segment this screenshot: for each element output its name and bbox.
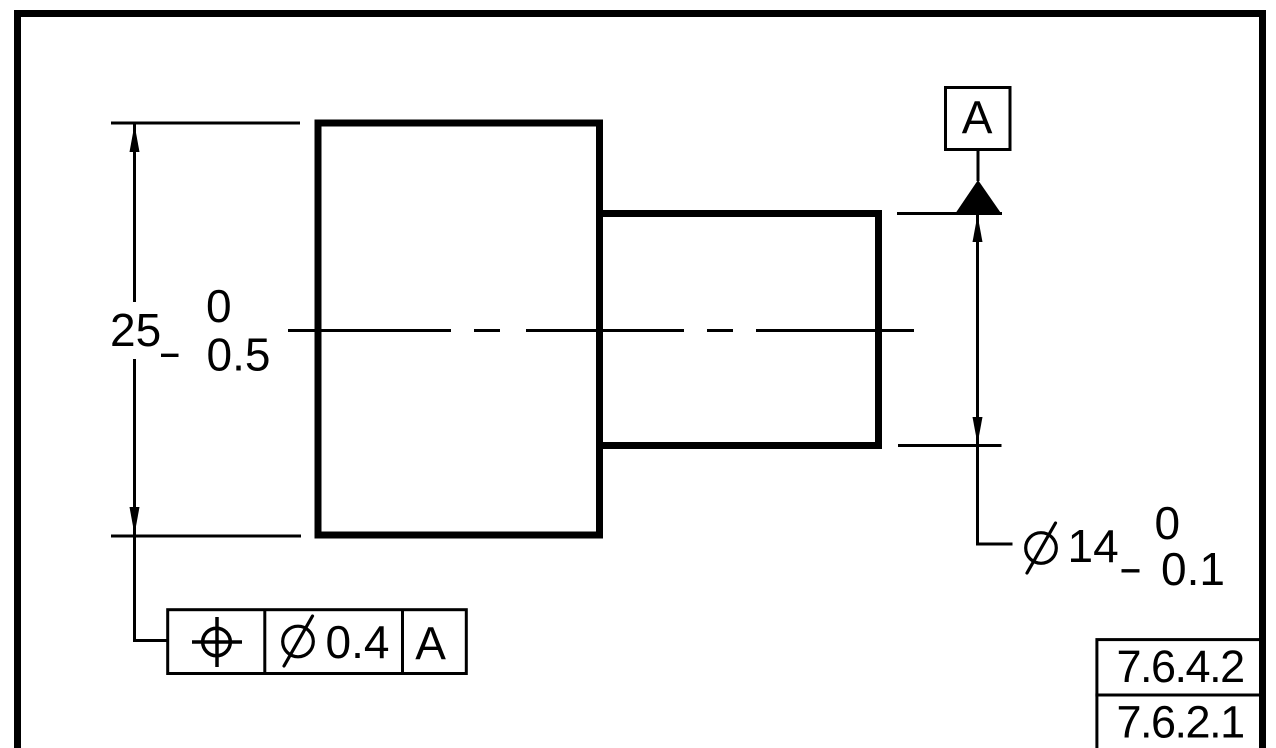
svg-text:A: A: [962, 92, 993, 144]
diameter symbol slash (dia14): [1027, 523, 1056, 573]
position symbol circle: [203, 628, 231, 656]
position symbol vertical line: [215, 617, 219, 667]
extension line top (25 dim): [111, 122, 300, 125]
svg-text:7.6.4.2: 7.6.4.2: [1117, 641, 1244, 692]
arrowhead up (dia14 dim): [973, 215, 983, 242]
svg-text:14: 14: [1068, 520, 1119, 572]
FCF diameter symbol slash: [284, 616, 313, 666]
dimension line dia14 + leader elbow: [978, 215, 1013, 544]
dimension line 25 upper segment: [133, 123, 136, 302]
arrowhead up (25 dim): [130, 125, 140, 153]
svg-text:0: 0: [1155, 497, 1181, 549]
reference number box 7.6.4.2: [1097, 640, 1263, 695]
position symbol horizontal line: [192, 640, 242, 644]
feature control frame outer box: [168, 610, 467, 674]
diameter symbol circle (dia14): [1026, 533, 1057, 564]
svg-text:0.4: 0.4: [326, 616, 390, 668]
svg-text:A: A: [415, 618, 446, 670]
FCF divider 1: [263, 610, 266, 674]
datum A box: [946, 88, 1011, 150]
dimension line 25 lower segment + leader to FCF: [135, 359, 168, 641]
arrowhead down (25 dim): [130, 507, 140, 535]
small cylinder outline (right step): [600, 214, 879, 446]
svg-text:25: 25: [110, 304, 161, 356]
svg-text:0.5: 0.5: [207, 329, 271, 381]
large cylinder outline (left step): [318, 123, 600, 535]
centerline (axis): [288, 329, 914, 332]
datum leader line: [977, 150, 980, 182]
extension line top (dia 14 dim): [897, 212, 1002, 215]
svg-text:0.1: 0.1: [1161, 543, 1225, 595]
tolerance minus sign (25 dim): [161, 354, 179, 357]
reference number box 7.6.2.1: [1097, 695, 1263, 748]
datum filled triangle: [956, 180, 1001, 213]
extension line bottom (25 dim): [111, 535, 301, 538]
svg-text:0: 0: [206, 280, 232, 332]
arrowhead down (dia14 dim): [973, 417, 983, 444]
FCF divider 2: [401, 610, 404, 674]
extension line bottom (dia 14 dim): [898, 444, 1002, 447]
tolerance minus sign (dia14): [1122, 569, 1140, 572]
FCF diameter symbol circle: [283, 626, 314, 657]
svg-text:7.6.2.1: 7.6.2.1: [1117, 697, 1244, 748]
